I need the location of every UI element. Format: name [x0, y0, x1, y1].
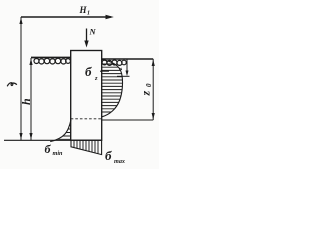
- label l (rotated cursive ell drawn as path): [7, 83, 17, 87]
- base line: [4, 139, 102, 141]
- svg-text:max: max: [114, 158, 125, 165]
- label h (rotated): [19, 98, 33, 105]
- force arrow H1: [21, 15, 114, 19]
- svg-text:0: 0: [145, 83, 153, 87]
- left lateral pressure diagram (below rotation point): [50, 120, 71, 142]
- rotation point level line (dashed inside column): [71, 118, 102, 120]
- svg-text:б: б: [85, 64, 92, 79]
- base pressure diagram (sigma_min to sigma_max): [71, 140, 102, 156]
- dimension z (small, to sigma_z level): [117, 59, 130, 76]
- dimension line h (embedment depth): [29, 58, 32, 140]
- svg-text:б: б: [45, 142, 52, 156]
- label z (rotated small): [117, 67, 124, 71]
- ground line left: [31, 58, 71, 65]
- label H1: [79, 5, 91, 17]
- svg-text:б: б: [105, 148, 112, 163]
- sigma_z pressure bulb: [101, 60, 124, 117]
- dimension line z0: [152, 59, 155, 120]
- svg-text:z: z: [139, 91, 153, 97]
- svg-text:z: z: [117, 67, 124, 71]
- svg-text:min: min: [53, 150, 64, 157]
- label z0 (rotated): [139, 83, 154, 97]
- label N: [89, 27, 97, 37]
- rotation level extension line to z0 dimension: [102, 119, 153, 121]
- ground line right: [102, 59, 153, 65]
- label sigma_min: [45, 142, 64, 157]
- column: [71, 51, 102, 141]
- label sigma_max: [105, 148, 125, 165]
- svg-text:z: z: [94, 75, 98, 82]
- label sigma_z with leader: [85, 64, 109, 82]
- svg-text:N: N: [89, 27, 97, 37]
- svg-text:h: h: [19, 98, 33, 105]
- force arrow N: [84, 29, 88, 48]
- dimension line l (total length): [19, 17, 22, 140]
- svg-text:1: 1: [87, 11, 90, 17]
